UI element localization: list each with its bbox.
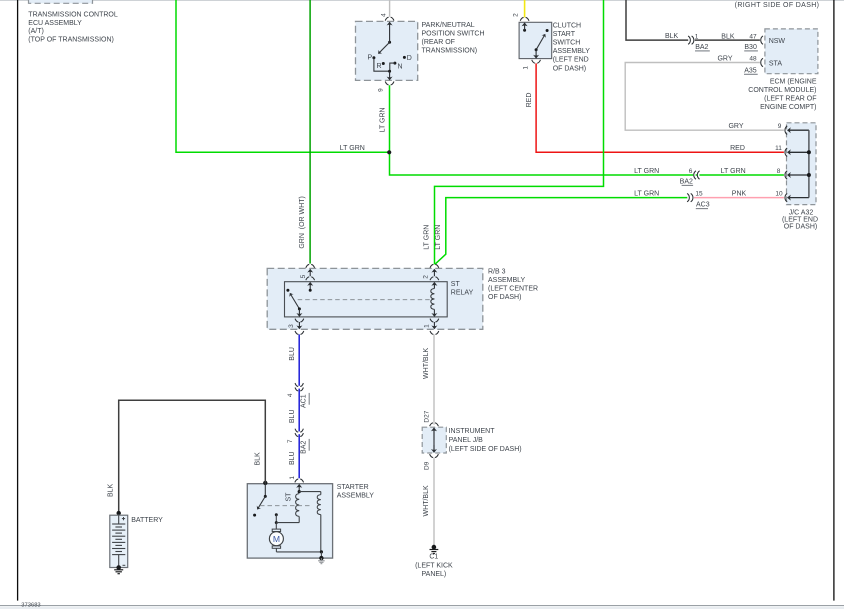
starter mechanical link — [260, 505, 310, 507]
svg-text:AC3: AC3 — [696, 202, 710, 209]
svg-text:LT GRN: LT GRN — [340, 145, 365, 152]
starter magnetic switch — [253, 483, 267, 517]
clutch start switch box — [519, 22, 552, 58]
pin 4 label — [380, 13, 387, 17]
svg-text:NSW: NSW — [769, 38, 786, 45]
J/C A32 pin 9 connector — [785, 126, 809, 134]
wire WHT/BLK from J/B to ground C1 — [423, 457, 434, 545]
wire LT GRN from pin 9 to node A then to J/C A32 pin 8 — [380, 85, 784, 175]
svg-text:(TOP OF TRANSMISSION): (TOP OF TRANSMISSION) — [28, 37, 114, 44]
svg-text:START: START — [553, 31, 576, 38]
svg-text:BLK: BLK — [107, 483, 114, 497]
instrument panel J/B connector D9 — [430, 445, 439, 457]
instrument panel J/B internal pass-through — [433, 430, 435, 449]
instrument panel J/B connector D27 — [430, 423, 439, 440]
node A junction dot — [387, 150, 391, 154]
transmission control ECU assembly (partial box, cut off at top) — [28, 0, 118, 44]
starter pin 1 label — [289, 476, 296, 480]
svg-text:N: N — [398, 63, 403, 70]
pin 1 label clutch switch — [522, 66, 529, 70]
R/B 3 assembly box — [267, 268, 483, 329]
labels RED pin 11 — [730, 145, 782, 152]
starter pull-in coil — [296, 494, 300, 523]
svg-text:WHT/BLK: WHT/BLK — [423, 485, 430, 516]
battery internals — [112, 515, 125, 567]
park/neutral position switch connector pin 9 — [385, 71, 394, 85]
svg-text:PANEL J/B: PANEL J/B — [449, 437, 484, 444]
svg-text:(LEFT SIDE OF DASH): (LEFT SIDE OF DASH) — [449, 446, 522, 453]
wire GRY from ECM STA to J/C A32 pin 9 — [625, 55, 784, 130]
svg-text:BLK: BLK — [665, 33, 679, 40]
svg-text:OF DASH): OF DASH) — [784, 224, 817, 231]
svg-text:TRANSMISSION): TRANSMISSION) — [422, 47, 478, 54]
svg-text:OF DASH): OF DASH) — [553, 65, 586, 72]
svg-text:7: 7 — [287, 439, 294, 443]
clutch start switch connector pin 1 — [532, 50, 541, 63]
svg-text:SWITCH: SWITCH — [553, 40, 581, 47]
pin 5 label — [300, 274, 307, 278]
starter connector pin 1 — [295, 479, 304, 492]
ST relay pin 3 connector — [295, 309, 304, 334]
svg-text:BA2: BA2 — [301, 440, 308, 453]
wire BLU from relay pin 3 to connector AC1 — [289, 334, 299, 385]
svg-text:B30: B30 — [744, 44, 757, 51]
svg-text:D27: D27 — [424, 410, 431, 422]
svg-text:BATTERY: BATTERY — [131, 517, 163, 524]
svg-text:BLU: BLU — [289, 409, 296, 423]
starter battery input junction dot — [263, 481, 267, 485]
svg-text:LT GRN: LT GRN — [634, 168, 659, 175]
svg-text:15: 15 — [695, 191, 703, 198]
svg-text:2: 2 — [423, 275, 430, 279]
connector BA2 pin 1 on BLK wire — [688, 33, 710, 51]
wire LT GRN branch to connector AC3 line — [435, 198, 687, 265]
svg-text:CLUTCH: CLUTCH — [553, 22, 581, 29]
svg-text:INSTRUMENT: INSTRUMENT — [449, 428, 496, 435]
svg-text:D: D — [407, 55, 412, 62]
instrument panel J/B label — [449, 428, 522, 453]
connector BA2 pin 7 on BLU wire — [287, 429, 309, 454]
J/C A32 label — [782, 209, 818, 230]
wire BLK from ignition switch to connector BA2 — [626, 0, 688, 40]
pin D27 label — [424, 410, 431, 422]
right side of dash label (ignition switch, cut off) — [735, 2, 820, 9]
svg-text:ECM (ENGINE: ECM (ENGINE — [770, 79, 817, 86]
svg-text:LT GRN: LT GRN — [721, 168, 746, 175]
starter contact node wires — [275, 513, 299, 529]
ECM label — [748, 79, 817, 111]
svg-text:TRANSMISSION CONTROL: TRANSMISSION CONTROL — [28, 12, 118, 19]
svg-text:5: 5 — [300, 274, 307, 278]
svg-text:10: 10 — [775, 191, 783, 198]
wire to park/neutral position switch pin 4 — [389, 0, 391, 17]
J/C A32 internal busbar — [807, 130, 811, 197]
starter assembly box — [247, 484, 332, 558]
ST relay pin 1 connector — [430, 313, 439, 334]
J/C A32 box — [787, 123, 817, 205]
svg-text:BLU: BLU — [289, 347, 296, 361]
wire PNK from AC3 to J/C A32 pin 10 — [694, 191, 784, 198]
svg-text:ASSEMBLY: ASSEMBLY — [488, 277, 526, 284]
svg-text:ST: ST — [451, 281, 461, 288]
battery box — [110, 515, 128, 567]
svg-text:LT GRN: LT GRN — [435, 225, 442, 250]
wire WHT/BLK from relay pin 1 to instrument panel J/B — [423, 334, 434, 424]
svg-text:R: R — [377, 63, 382, 70]
svg-text:4: 4 — [380, 13, 387, 17]
svg-text:POSITION SWITCH: POSITION SWITCH — [422, 30, 485, 37]
wire LT GRN vertical from top to relay branch — [424, 0, 604, 264]
wire BLK from connector BA2 to ECM NSW — [695, 33, 760, 51]
svg-text:(LEFT CENTER: (LEFT CENTER — [488, 286, 538, 293]
wire LT GRN from top-left down and right to node A — [176, 0, 389, 152]
svg-text:4: 4 — [287, 393, 294, 397]
J/C A32 pin 10 connector — [785, 193, 809, 201]
svg-text:1: 1 — [522, 66, 529, 70]
wire BLK battery cable to starter — [107, 400, 265, 513]
svg-text:1: 1 — [695, 33, 699, 40]
connector BA2 pin 6 — [680, 171, 700, 186]
svg-text:RELAY: RELAY — [451, 290, 474, 297]
svg-text:C1: C1 — [429, 553, 438, 560]
clutch start switch internals — [523, 29, 549, 52]
svg-text:PANEL): PANEL) — [422, 571, 447, 578]
labels LT GRN pin 8 — [721, 168, 781, 175]
starter internal ground — [318, 556, 325, 564]
svg-text:1: 1 — [289, 476, 296, 480]
battery ground — [114, 565, 123, 574]
svg-text:(LEFT END: (LEFT END — [553, 57, 589, 64]
svg-text:(RIGHT SIDE OF DASH): (RIGHT SIDE OF DASH) — [735, 2, 820, 9]
svg-text:D9: D9 — [424, 461, 431, 470]
svg-text:RED: RED — [526, 93, 533, 108]
labels on LT GRN to BA2 pin 6 — [634, 168, 693, 175]
svg-text:(LEFT KICK: (LEFT KICK — [415, 562, 453, 569]
svg-text:48: 48 — [749, 55, 757, 62]
park/neutral position switch connector pin 4 — [385, 17, 394, 42]
J/C A32 pin 8 connector — [785, 171, 809, 179]
svg-text:P: P — [368, 54, 373, 61]
starter motor to ground wire — [276, 548, 323, 558]
ECM connector pin NSW — [761, 36, 763, 44]
instrument panel J/B box — [422, 427, 446, 453]
connector AC3 pin 15 — [687, 191, 710, 209]
wire RED from clutch switch to J/C A32 pin 11 — [526, 63, 784, 152]
park/neutral position switch label — [422, 22, 485, 55]
pin D9 label — [424, 461, 431, 470]
park/neutral position switch box — [356, 21, 418, 80]
svg-text:J/C A32: J/C A32 — [789, 209, 814, 216]
wire GRN (OR WHT) vertical to ST relay pin 5 — [299, 0, 310, 264]
svg-text:ASSEMBLY: ASSEMBLY — [553, 48, 591, 55]
svg-text:LT GRN: LT GRN — [424, 225, 431, 250]
svg-text:GRN (OR WHT): GRN (OR WHT) — [299, 196, 306, 249]
svg-text:PNK: PNK — [732, 191, 747, 198]
svg-text:BLK: BLK — [254, 452, 261, 466]
svg-text:CONTROL MODULE): CONTROL MODULE) — [748, 87, 816, 94]
svg-text:(A/T): (A/T) — [28, 28, 44, 35]
svg-text:RED: RED — [730, 145, 745, 152]
svg-text:LT GRN: LT GRN — [634, 191, 659, 198]
svg-text:OF DASH): OF DASH) — [488, 294, 521, 301]
pin 2 label clutch switch — [513, 13, 520, 17]
svg-text:ECU ASSEMBLY: ECU ASSEMBLY — [28, 20, 82, 27]
svg-text:(REAR OF: (REAR OF — [422, 39, 455, 46]
svg-text:A35: A35 — [744, 67, 757, 74]
svg-text:STARTER: STARTER — [337, 484, 369, 491]
starter hold-in coil — [299, 492, 321, 552]
svg-text:BLU: BLU — [289, 451, 296, 465]
svg-text:ENGINE COMPT): ENGINE COMPT) — [760, 104, 816, 111]
pin 3 label — [288, 324, 295, 328]
svg-text:8: 8 — [777, 168, 781, 175]
ST relay coil — [431, 289, 435, 314]
svg-text:9: 9 — [778, 123, 782, 130]
svg-text:47: 47 — [749, 33, 757, 40]
svg-text:9: 9 — [378, 88, 385, 92]
clutch start switch label — [553, 22, 591, 72]
svg-text:M: M — [273, 534, 280, 544]
ST relay pin 5 connector — [306, 264, 315, 290]
svg-text:(LEFT END: (LEFT END — [782, 217, 818, 224]
wire BLU from AC1 to connector BA2 — [289, 389, 299, 432]
svg-text:373683: 373683 — [21, 603, 40, 609]
svg-text:R/B 3: R/B 3 — [488, 269, 506, 276]
ST relay pin 2 connector — [430, 264, 439, 288]
ST relay inner box — [285, 282, 448, 317]
battery label — [131, 517, 163, 524]
svg-text:GRY: GRY — [728, 123, 743, 130]
svg-text:2: 2 — [513, 13, 520, 17]
starter motor M — [269, 529, 283, 548]
connector AC1 pin 4 on BLU wire — [287, 383, 309, 408]
svg-text:LT GRN: LT GRN — [380, 107, 387, 132]
svg-text:11: 11 — [775, 145, 782, 152]
starter ST terminal — [286, 490, 301, 501]
svg-text:GRY: GRY — [717, 55, 732, 62]
svg-text:(LEFT REAR OF: (LEFT REAR OF — [764, 95, 816, 102]
svg-text:BLK: BLK — [721, 33, 735, 40]
svg-text:3: 3 — [288, 324, 295, 328]
ECM box — [765, 29, 818, 74]
labels on LT GRN to AC3 — [634, 191, 659, 198]
svg-text:STA: STA — [769, 60, 782, 67]
svg-text:WHT/BLK: WHT/BLK — [423, 348, 430, 379]
svg-text:ASSEMBLY: ASSEMBLY — [337, 492, 375, 499]
ground C1 — [415, 545, 453, 578]
pin 1 label relay — [424, 324, 431, 328]
svg-text:AC1: AC1 — [301, 394, 308, 408]
J/C A32 pin 11 connector — [785, 148, 809, 156]
wire BLU from BA2 to starter pin 1 — [289, 434, 299, 478]
svg-text:ST: ST — [286, 492, 293, 502]
svg-text:PARK/NEUTRAL: PARK/NEUTRAL — [422, 22, 475, 29]
svg-text:1: 1 — [424, 324, 431, 328]
battery positive junction dot — [117, 511, 121, 515]
pin 9 label — [378, 88, 385, 92]
pin 2 label — [423, 275, 430, 279]
ST relay mechanical link — [298, 299, 432, 301]
ST relay switch — [286, 289, 311, 311]
svg-text:BA2: BA2 — [680, 179, 693, 186]
R/B 3 label — [488, 269, 538, 302]
park/neutral position switch internals — [368, 41, 412, 73]
starter assembly label — [337, 484, 375, 500]
ST relay label — [451, 281, 474, 297]
ECM connector pin STA — [761, 58, 763, 66]
wire YEL to clutch start switch pin 2 — [524, 0, 526, 17]
svg-text:BA2: BA2 — [695, 44, 708, 51]
svg-text:6: 6 — [689, 168, 693, 175]
clutch start switch connector pin 2 — [520, 17, 529, 30]
